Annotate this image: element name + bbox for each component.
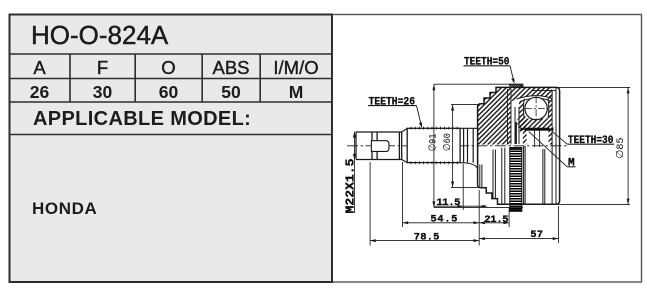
ext line 558.4 <box>557 206 559 243</box>
arrows M22 <box>353 132 356 138</box>
hatch inner race wedge <box>518 119 549 128</box>
hatch top band over ball <box>511 87 552 101</box>
value cell ABS=50 <box>202 82 260 103</box>
body left face <box>478 104 481 188</box>
bore top arcs <box>517 96 553 102</box>
white strip in flange <box>512 103 516 145</box>
dim 11.5 line <box>434 205 487 207</box>
svg-text:∅85: ∅85 <box>615 138 627 159</box>
header cell A <box>9 57 70 79</box>
bottom half verticals right <box>524 146 545 204</box>
dim phi85 ext top <box>558 86 630 88</box>
leader M <box>529 132 567 167</box>
value cell I/M/O=M <box>260 82 332 103</box>
dim 78.5 line <box>370 240 479 242</box>
hatch sliver left of ball socket <box>519 101 527 145</box>
leader TEETH=50 <box>510 66 514 81</box>
svg-text:21.5: 21.5 <box>484 214 508 226</box>
bottom half verticals left <box>493 148 505 205</box>
table column line 3 <box>201 54 203 102</box>
value cell F=30 <box>70 82 135 103</box>
dim phi91 ext bottom <box>434 206 523 208</box>
svg-text:78.5: 78.5 <box>414 232 440 244</box>
dim 57 line <box>479 238 558 240</box>
drawing text <box>344 57 628 244</box>
arrows 78.5 <box>370 239 376 242</box>
arrows phi85 <box>627 87 630 93</box>
value cell O=60 <box>135 82 202 103</box>
inner right face lines <box>552 87 556 204</box>
inner race spline band <box>510 148 522 212</box>
text underlines (drawing labels) <box>368 66 614 167</box>
body left flange outline <box>481 87 556 103</box>
ext line 479.2 <box>478 190 480 246</box>
table row line 3 <box>9 101 332 103</box>
table row line 1 <box>9 53 332 55</box>
boot seat grooves <box>460 128 478 163</box>
body right face <box>556 87 560 204</box>
main axis centerline <box>347 145 568 147</box>
header cell F <box>70 57 135 79</box>
ABS ring tab TEETH=50 <box>510 84 523 87</box>
bore white socket around ball <box>523 95 550 122</box>
arrowheads <box>353 84 630 242</box>
table column line 1 <box>69 54 71 102</box>
dim phi85 line <box>627 87 629 204</box>
shaft shoulder <box>399 132 401 160</box>
spline ticks bottom <box>411 161 457 164</box>
hatch right flank <box>549 97 553 145</box>
table row line 4 <box>9 134 332 136</box>
ext line 463.2 <box>462 164 464 210</box>
header cell O <box>135 57 202 79</box>
svg-text:∅91: ∅91 <box>427 134 439 152</box>
verticals under black bar <box>535 131 540 148</box>
arrows 11.5 outside <box>458 205 464 208</box>
svg-text:∅60: ∅60 <box>442 133 454 151</box>
svg-text:M22X1.5: M22X1.5 <box>344 159 358 214</box>
applicable model heading <box>33 108 251 131</box>
dim phi60 line <box>452 105 454 188</box>
dim phi91 line <box>433 84 435 207</box>
dim M22X1.5 line <box>353 132 355 213</box>
bore left wall lines <box>515 107 519 144</box>
seat to flange transition <box>464 163 482 188</box>
hatch left flange upper <box>478 87 511 144</box>
arrows phi60 <box>451 105 454 111</box>
table column line 2 <box>134 54 136 102</box>
dim 54.5 line <box>403 222 480 224</box>
svg-text:11.5: 11.5 <box>436 197 460 209</box>
ball socket arcs <box>524 99 549 119</box>
ext line 370 <box>369 162 371 246</box>
arrows 57 <box>479 237 485 240</box>
shoulder chamfer <box>402 128 408 162</box>
dim phi60 ext bottom <box>451 186 478 188</box>
part number title <box>31 20 168 51</box>
table row line 2 <box>9 78 332 80</box>
bore ceiling line <box>532 90 556 92</box>
ext line 509.1 <box>508 208 510 227</box>
white gap left of wedge <box>517 132 523 146</box>
svg-text:M: M <box>568 157 575 169</box>
thread pilot cylinder <box>371 141 389 152</box>
thread flange lines <box>372 132 377 160</box>
arrows 54.5 <box>403 221 409 224</box>
ext line 402.5 <box>402 162 404 227</box>
black bar (spline bore) <box>520 127 553 131</box>
spline ticks top <box>411 127 457 130</box>
svg-text:TEETH=50: TEETH=50 <box>464 57 510 69</box>
value cell A=26 <box>9 82 70 103</box>
header cell ABS <box>202 57 260 79</box>
leader TEETH=26 <box>417 106 422 126</box>
dim phi60 ext top <box>451 104 478 106</box>
svg-text:TEETH=26: TEETH=26 <box>369 97 415 109</box>
header cell I/M/O <box>260 57 332 79</box>
dim 21.5 line <box>479 222 509 224</box>
spline section TEETH=26 <box>407 128 460 162</box>
dim phi85 ext bottom <box>558 204 630 206</box>
svg-text:TEETH=30: TEETH=30 <box>568 135 614 147</box>
table column line 4 <box>259 54 261 102</box>
dim phi91 ext top <box>434 83 510 85</box>
table panel gray <box>10 15 333 283</box>
arrows phi91 <box>432 84 435 90</box>
svg-text:57: 57 <box>530 229 543 241</box>
leader TEETH=30 <box>552 131 568 144</box>
stub shaft thread outline <box>356 132 402 160</box>
applicable model value HONDA <box>32 199 97 219</box>
flange inner wall lines <box>508 89 512 145</box>
ball crosshair <box>525 108 549 110</box>
ball <box>525 97 547 119</box>
arrows 21.5 <box>479 221 485 224</box>
svg-text:54.5: 54.5 <box>430 214 457 226</box>
